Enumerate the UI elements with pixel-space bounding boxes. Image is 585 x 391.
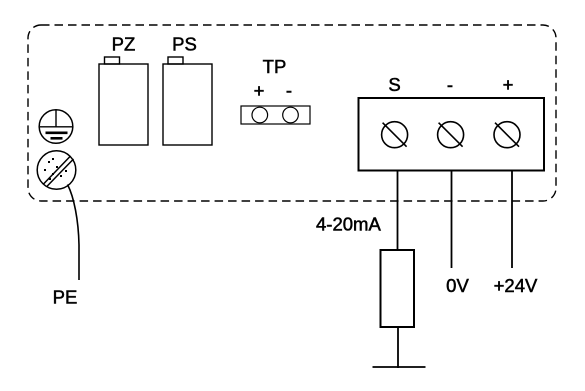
enclosure outline (dashed) [28, 25, 556, 201]
svg-text:PE: PE [53, 287, 78, 308]
svg-text:+24V: +24V [494, 275, 538, 296]
wire resistor to ground [397, 327, 399, 368]
speckles on screw [44, 158, 67, 180]
potentiometer PS [163, 57, 212, 145]
chassis screw (hatched circle) [37, 151, 76, 190]
wire +24V [511, 171, 513, 269]
screw terminal plus [494, 122, 520, 148]
svg-text:TP: TP [263, 56, 287, 77]
screw terminal S [382, 122, 408, 148]
terminal block [359, 98, 545, 171]
svg-text:PZ: PZ [112, 34, 136, 55]
svg-text:0V: 0V [446, 275, 469, 296]
svg-text:+: + [254, 80, 265, 101]
test point header TP [241, 106, 310, 124]
svg-text:PS: PS [172, 34, 197, 55]
wire 0V [451, 171, 453, 269]
screw terminal minus [438, 122, 464, 148]
svg-text:S: S [388, 74, 400, 95]
svg-text:+: + [503, 74, 514, 95]
wire S to resistor [397, 171, 399, 251]
resistor (load) [381, 250, 415, 327]
svg-text:-: - [447, 74, 453, 95]
svg-text:-: - [286, 80, 292, 101]
earth symbol PE [39, 110, 73, 144]
svg-text:4-20mA: 4-20mA [316, 214, 381, 235]
PE lead wire [68, 185, 80, 281]
ground line [373, 366, 426, 368]
potentiometer PZ [99, 57, 148, 145]
